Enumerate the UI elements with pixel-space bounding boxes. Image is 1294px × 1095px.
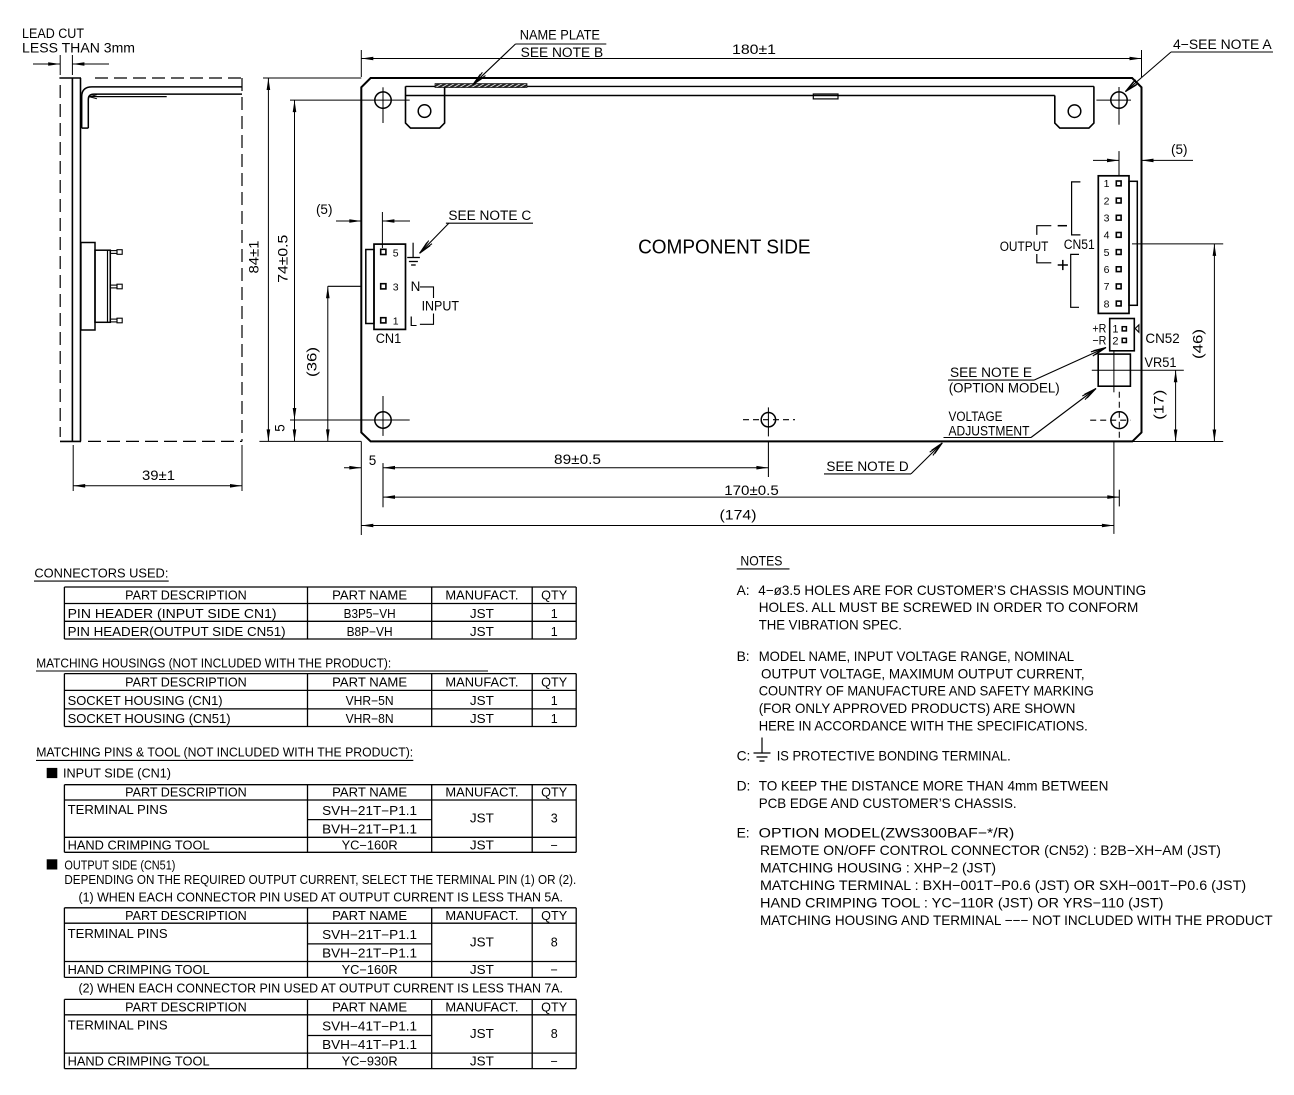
svg-text:MATCHING HOUSINGS (NOT INCL: MATCHING HOUSINGS (NOT INCLUDED WITH THE…	[36, 657, 391, 671]
svg-text:D:: D:	[737, 779, 751, 794]
dimension (36)	[305, 286, 362, 441]
dimension (5) top right	[1093, 142, 1193, 162]
mounting hole bottom-right	[1090, 392, 1130, 507]
svg-text:JST: JST	[470, 839, 494, 853]
svg-text:PART DESCRIPTION: PART DESCRIPTION	[125, 1000, 247, 1014]
side view chassis flange bracket	[82, 87, 242, 128]
note A text	[737, 583, 1147, 633]
table output side pins (2)	[64, 999, 576, 1068]
svg-text:(36): (36)	[305, 347, 320, 377]
svg-text:QTY: QTY	[541, 589, 568, 603]
svg-text:5: 5	[369, 453, 377, 468]
svg-text:QTY: QTY	[541, 676, 568, 690]
svg-text:HAND CRIMPING TOOL: HAND CRIMPING TOOL	[68, 1055, 210, 1069]
svg-text:OUTPUT SIDE (CN51): OUTPUT SIDE (CN51)	[64, 859, 175, 873]
svg-text:BVH−21T−P1.1: BVH−21T−P1.1	[322, 947, 417, 961]
svg-text:VOLTAGE: VOLTAGE	[949, 409, 1003, 424]
note B text	[737, 649, 1094, 733]
svg-text:1: 1	[551, 607, 558, 621]
svg-text:SEE NOTE B: SEE NOTE B	[521, 45, 604, 60]
svg-text:MANUFACT.: MANUFACT.	[445, 676, 518, 690]
label 4-SEE NOTE A with leader	[1125, 37, 1273, 92]
svg-text:PART DESCRIPTION: PART DESCRIPTION	[125, 786, 247, 800]
label SEE NOTE C with leader	[420, 208, 533, 253]
svg-text:SVH−21T−P1.1: SVH−21T−P1.1	[322, 804, 417, 818]
svg-text:NAME PLATE: NAME PLATE	[520, 28, 600, 43]
svg-text:OPTION MODEL(ZWS300BAF−*/R): OPTION MODEL(ZWS300BAF−*/R)	[759, 826, 1015, 841]
svg-text:PART NAME: PART NAME	[332, 909, 407, 923]
svg-text:MANUFACT.: MANUFACT.	[445, 786, 518, 800]
svg-text:TERMINAL PINS: TERMINAL PINS	[68, 927, 168, 941]
svg-text:TERMINAL PINS: TERMINAL PINS	[68, 803, 168, 817]
svg-text:(1) WHEN EACH CONNECTOR PI: (1) WHEN EACH CONNECTOR PIN USED AT OUTP…	[79, 891, 564, 905]
CN51 pins 1-8	[1104, 178, 1121, 310]
svg-text:1: 1	[551, 712, 558, 726]
svg-text:JST: JST	[470, 1055, 494, 1069]
svg-text:SVH−21T−P1.1: SVH−21T−P1.1	[322, 928, 417, 942]
svg-text:BVH−21T−P1.1: BVH−21T−P1.1	[322, 823, 417, 837]
svg-text:39±1: 39±1	[142, 468, 175, 483]
dimension (17)	[1152, 370, 1178, 441]
svg-text:1: 1	[551, 694, 558, 708]
OUTPUT label with polarity brackets	[1000, 182, 1081, 307]
input pin labels N L INPUT	[410, 279, 460, 329]
side view name plate line	[88, 95, 166, 99]
svg-text:COMPONENT SIDE: COMPONENT SIDE	[638, 237, 811, 259]
dimension LEAD CUT LESS THAN 3mm	[22, 26, 135, 75]
table matching housings	[64, 674, 576, 727]
mounting hole bottom-left	[290, 396, 410, 507]
svg-text:1: 1	[1112, 324, 1118, 336]
label SEE NOTE D with leader	[824, 443, 942, 474]
note E text	[737, 826, 1274, 928]
svg-text:(OPTION MODEL): (OPTION MODEL)	[949, 380, 1060, 395]
right mounting tab with hole	[1055, 86, 1094, 128]
small component rectangle on flange	[813, 94, 838, 99]
connector CN51	[1098, 176, 1137, 314]
top flange lines	[406, 86, 1094, 95]
svg-text:1: 1	[393, 316, 399, 328]
svg-text:8: 8	[551, 1027, 558, 1041]
connector CN52	[1092, 319, 1180, 351]
svg-text:CN51: CN51	[1064, 237, 1095, 252]
svg-text:PART DESCRIPTION: PART DESCRIPTION	[125, 589, 247, 603]
svg-text:VR51: VR51	[1145, 355, 1177, 370]
svg-text:SOCKET HOUSING (CN51): SOCKET HOUSING (CN51)	[68, 712, 231, 726]
svg-text:JST: JST	[470, 1027, 494, 1041]
svg-text:TO KEEP THE DISTANCE MORE: TO KEEP THE DISTANCE MORE THAN 4mm BETWE…	[759, 779, 1109, 794]
name plate hatched band	[435, 84, 527, 88]
PCB board outline (component side)	[361, 78, 1141, 441]
notes heading	[737, 554, 790, 569]
svg-text:INPUT SIDE (CN1): INPUT SIDE (CN1)	[63, 767, 171, 781]
svg-text:MANUFACT.: MANUFACT.	[445, 909, 518, 923]
side view PCB edge profile	[59, 78, 81, 441]
svg-text:89±0.5: 89±0.5	[554, 452, 601, 467]
svg-text:JST: JST	[470, 712, 494, 726]
svg-text:B8P−VH: B8P−VH	[347, 625, 393, 639]
svg-text:8: 8	[551, 936, 558, 950]
svg-text:HAND CRIMPING TOOL : YC−11: HAND CRIMPING TOOL : YC−110R (JST) OR YR…	[760, 896, 1164, 911]
svg-text:(5): (5)	[316, 202, 333, 217]
svg-text:PART NAME: PART NAME	[332, 676, 407, 690]
svg-text:N: N	[411, 279, 421, 294]
left mounting tab with hole	[406, 86, 445, 128]
svg-text:MODEL NAME, INPUT VOLTAGE: MODEL NAME, INPUT VOLTAGE RANGE, NOMINAL	[759, 649, 1075, 664]
svg-text:8: 8	[1104, 298, 1110, 310]
svg-text:COUNTRY OF MANUFACTURE AND: COUNTRY OF MANUFACTURE AND SAFETY MARKIN…	[759, 684, 1094, 699]
dimension 74±0.5 and 5	[273, 100, 297, 441]
mounting hole top-right	[1096, 87, 1131, 176]
svg-text:E:: E:	[737, 826, 750, 841]
svg-text:OUTPUT VOLTAGE, MAXIMUM OUT: OUTPUT VOLTAGE, MAXIMUM OUTPUT CURRENT,	[761, 667, 1085, 682]
svg-text:MATCHING HOUSING AND TERMIN: MATCHING HOUSING AND TERMINAL −−− NOT IN…	[760, 913, 1273, 928]
table connectors used	[64, 587, 576, 639]
dimension 5 bottom left	[344, 441, 376, 535]
svg-text:QTY: QTY	[541, 786, 568, 800]
svg-text:INPUT: INPUT	[422, 299, 459, 314]
svg-text:TERMINAL PINS: TERMINAL PINS	[68, 1019, 168, 1033]
svg-text:SVH−41T−P1.1: SVH−41T−P1.1	[322, 1020, 417, 1034]
side view component envelope (dashed)	[60, 78, 242, 441]
svg-text:JST: JST	[470, 607, 494, 621]
bullet INPUT SIDE (CN1)	[47, 767, 171, 781]
svg-text:5: 5	[393, 247, 399, 259]
dimension (5) at CN1	[316, 202, 410, 248]
table title MATCHING PINS & TOOL	[36, 746, 413, 761]
svg-text:JST: JST	[470, 936, 494, 950]
svg-text:YC−160R: YC−160R	[342, 963, 398, 977]
label NAME PLATE SEE NOTE B with leader	[473, 28, 607, 85]
svg-text:6: 6	[1104, 264, 1110, 276]
svg-text:PART NAME: PART NAME	[332, 786, 407, 800]
svg-text:HERE IN ACCORDANCE WITH TH: HERE IN ACCORDANCE WITH THE SPECIFICATIO…	[759, 718, 1088, 733]
svg-text:170±0.5: 170±0.5	[724, 483, 779, 498]
svg-text:LEAD CUT: LEAD CUT	[22, 26, 84, 41]
svg-text:4−SEE NOTE A: 4−SEE NOTE A	[1173, 37, 1272, 52]
svg-text:−: −	[551, 963, 558, 977]
note C text with ground symbol	[737, 738, 1011, 764]
table output side pins (1)	[64, 908, 576, 978]
svg-text:QTY: QTY	[541, 909, 568, 923]
svg-text:VHR−8N: VHR−8N	[346, 712, 394, 726]
svg-text:L: L	[410, 314, 418, 329]
note D text	[737, 779, 1109, 812]
dimension 89±0.5	[383, 452, 768, 470]
connector CN1	[366, 244, 406, 346]
svg-text:IS PROTECTIVE BONDING TERMI: IS PROTECTIVE BONDING TERMINAL.	[777, 749, 1011, 764]
svg-text:5: 5	[273, 424, 288, 432]
svg-text:4−ø3.5 HOLES ARE FOR CUSTO: 4−ø3.5 HOLES ARE FOR CUSTOMER’S CHASSIS …	[758, 583, 1146, 598]
svg-text:1: 1	[1104, 178, 1110, 190]
svg-text:SEE NOTE E: SEE NOTE E	[950, 365, 1032, 380]
svg-text:VHR−5N: VHR−5N	[346, 694, 394, 708]
svg-text:SEE NOTE D: SEE NOTE D	[826, 459, 909, 474]
svg-text:CONNECTORS USED:: CONNECTORS USED:	[34, 567, 168, 581]
svg-text:HOLES. ALL MUST BE SCREWED: HOLES. ALL MUST BE SCREWED IN ORDER TO C…	[759, 600, 1139, 615]
svg-text:4: 4	[1104, 230, 1110, 242]
svg-text:74±0.5: 74±0.5	[275, 235, 290, 283]
svg-text:THE VIBRATION SPEC.: THE VIBRATION SPEC.	[759, 617, 902, 632]
svg-text:(5): (5)	[1171, 142, 1188, 157]
svg-text:(174): (174)	[720, 508, 757, 523]
svg-text:JST: JST	[470, 694, 494, 708]
svg-text:3: 3	[551, 812, 558, 826]
svg-text:MANUFACT.: MANUFACT.	[445, 589, 518, 603]
svg-text:JST: JST	[470, 963, 494, 977]
svg-text:MATCHING PINS & TOOL (NOT: MATCHING PINS & TOOL (NOT INCLUDED WITH …	[36, 746, 413, 760]
svg-text:7: 7	[1104, 281, 1110, 293]
svg-text:SEE NOTE C: SEE NOTE C	[448, 208, 531, 223]
svg-text:CN52: CN52	[1145, 330, 1180, 346]
dimension (46)	[1132, 244, 1223, 442]
svg-text:B3P5−VH: B3P5−VH	[344, 607, 396, 621]
svg-text:84±1: 84±1	[246, 241, 261, 274]
svg-text:QTY: QTY	[541, 1000, 568, 1014]
dimension 170±0.5	[383, 483, 1119, 499]
svg-text:PART DESCRIPTION: PART DESCRIPTION	[125, 676, 247, 690]
svg-text:OUTPUT: OUTPUT	[1000, 239, 1049, 254]
table title CONNECTORS USED	[34, 567, 169, 582]
svg-text:JST: JST	[470, 625, 494, 639]
svg-text:PART DESCRIPTION: PART DESCRIPTION	[125, 909, 247, 923]
svg-text:−: −	[551, 1055, 558, 1069]
svg-text:YC−160R: YC−160R	[342, 839, 398, 853]
svg-text:1: 1	[551, 625, 558, 639]
protective bonding terminal ground symbol	[407, 243, 420, 265]
svg-text:B:: B:	[737, 649, 750, 664]
svg-text:CN1: CN1	[376, 331, 402, 346]
svg-text:−: −	[551, 839, 558, 853]
table input side pins	[64, 785, 576, 853]
svg-text:2: 2	[1112, 335, 1118, 347]
svg-text:SOCKET HOUSING (CN1): SOCKET HOUSING (CN1)	[68, 694, 223, 708]
svg-text:A:: A:	[737, 583, 750, 598]
side view connector CN1 profile	[81, 243, 122, 331]
svg-text:180±1: 180±1	[732, 42, 776, 57]
svg-text:HAND CRIMPING TOOL: HAND CRIMPING TOOL	[68, 963, 210, 977]
bullet OUTPUT SIDE (CN51)	[47, 859, 176, 873]
svg-text:(FOR ONLY APPROVED PRODUCTS: (FOR ONLY APPROVED PRODUCTS) ARE SHOWN	[759, 701, 1076, 716]
svg-text:REMOTE ON/OFF CONTROL CONNE: REMOTE ON/OFF CONTROL CONNECTOR (CN52) :…	[760, 843, 1221, 858]
trimpot VR51	[1092, 351, 1184, 393]
svg-text:PART NAME: PART NAME	[332, 589, 407, 603]
svg-text:JST: JST	[470, 812, 494, 826]
dimension 39±1	[73, 445, 242, 491]
svg-text:(17): (17)	[1152, 390, 1167, 420]
dimension 180±1	[361, 42, 1141, 77]
svg-text:2: 2	[1104, 195, 1110, 207]
svg-text:NOTES: NOTES	[740, 554, 782, 569]
svg-text:HAND CRIMPING TOOL: HAND CRIMPING TOOL	[68, 839, 210, 853]
label SEE NOTE E (OPTION MODEL) with leader	[948, 348, 1106, 396]
svg-text:(2) WHEN EACH CONNECTOR PI: (2) WHEN EACH CONNECTOR PIN USED AT OUTP…	[79, 982, 564, 996]
dimension (174)	[361, 442, 1114, 534]
svg-text:PCB EDGE AND CUSTOMER’S CH: PCB EDGE AND CUSTOMER’S CHASSIS.	[759, 796, 1017, 811]
svg-text:PART NAME: PART NAME	[332, 1000, 407, 1014]
mounting hole bottom-center	[743, 407, 795, 477]
svg-text:3: 3	[393, 282, 399, 294]
svg-text:−R: −R	[1092, 333, 1106, 347]
svg-text:MATCHING TERMINAL : BXH−001: MATCHING TERMINAL : BXH−001T−P0.6 (JST) …	[760, 878, 1246, 893]
svg-text:ADJUSTMENT: ADJUSTMENT	[949, 423, 1030, 438]
svg-text:YC−930R: YC−930R	[342, 1055, 398, 1069]
svg-text:LESS THAN 3mm: LESS THAN 3mm	[22, 41, 135, 56]
svg-text:BVH−41T−P1.1: BVH−41T−P1.1	[322, 1038, 417, 1052]
svg-text:MANUFACT.: MANUFACT.	[445, 1000, 518, 1014]
svg-text:PIN HEADER (INPUT SIDE CN1: PIN HEADER (INPUT SIDE CN1)	[68, 607, 277, 621]
mounting hole top-left	[290, 87, 410, 123]
svg-text:5: 5	[1104, 247, 1110, 259]
svg-text:(46): (46)	[1190, 329, 1205, 359]
svg-text:3: 3	[1104, 213, 1110, 225]
svg-text:PIN HEADER(OUTPUT SIDE CN51: PIN HEADER(OUTPUT SIDE CN51)	[68, 625, 286, 639]
svg-text:DEPENDING ON THE REQUIRED: DEPENDING ON THE REQUIRED OUTPUT CURRENT…	[64, 873, 576, 887]
svg-text:MATCHING HOUSING : XHP−2 (: MATCHING HOUSING : XHP−2 (JST)	[760, 861, 996, 876]
table title MATCHING HOUSINGS	[36, 657, 488, 672]
svg-text:C:: C:	[737, 749, 751, 764]
label VOLTAGE ADJUSTMENT with leader	[944, 389, 1097, 439]
dimension 84±1	[246, 78, 361, 441]
